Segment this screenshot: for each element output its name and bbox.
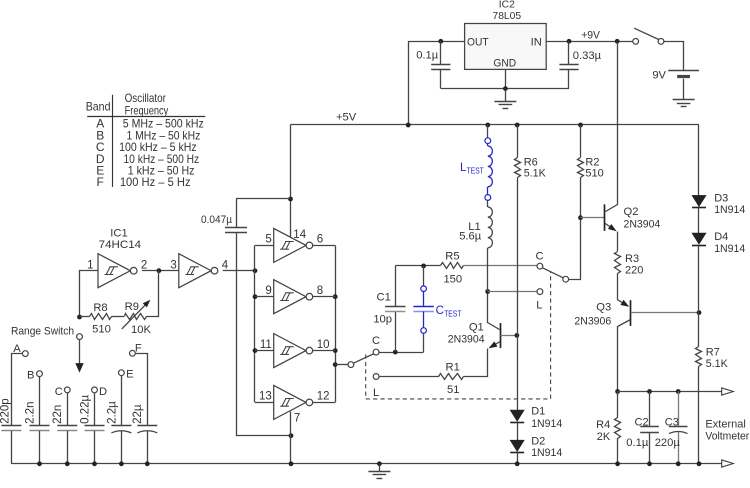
wire: output stub pin 8 (313, 296, 335, 298)
wire: +9V down to Q2 collector (617, 41, 619, 203)
wire: output stub pin 12 (313, 402, 335, 404)
svg-text:C: C (436, 305, 444, 317)
svg-text:2N3906: 2N3906 (574, 316, 611, 328)
svg-text:IC1: IC1 (110, 228, 127, 240)
wire: R5 row (395, 265, 440, 267)
svg-text:78L05: 78L05 (492, 11, 521, 22)
capacitor CTEST (blue) (423, 266, 425, 286)
capacitor 22u (polarized) (137, 425, 157, 427)
wire: IC1B output to buffer bank input bus (223, 270, 255, 272)
wire: E to 2.2u (121, 376, 123, 426)
svg-text:5.6µ: 5.6µ (459, 230, 482, 242)
svg-text:10: 10 (317, 339, 330, 351)
terminal D (92, 387, 98, 393)
pin 7 wire (290, 412, 292, 464)
power switch blade (634, 28, 659, 39)
junction Ctest top (421, 264, 426, 269)
inverter IC1A (pins 1/2) (98, 254, 137, 288)
transistor Q2 2N3904 (581, 217, 605, 219)
resistor R9 (variable) (125, 314, 147, 320)
wire: R6 to Q1 base to D1 (517, 178, 519, 411)
capacitor 2.2n (30, 425, 50, 427)
wire: selector tap to pole (335, 364, 348, 366)
wire: C to 22n (67, 393, 69, 426)
ground below battery (673, 99, 695, 101)
inductor LTEST (blue) (487, 125, 489, 138)
C/L selector left blade (353, 354, 374, 364)
junction C2 top (647, 389, 652, 394)
junction output bus selector tap (333, 362, 338, 367)
svg-text:L: L (373, 387, 379, 399)
wire: input stub pin 11 (255, 350, 274, 352)
inverter IC1 gate (pins 13/12) (274, 385, 313, 419)
junction input bus pin 9 (253, 294, 258, 299)
C/L selector right blade (542, 268, 563, 278)
capacitor 0.33u (568, 41, 570, 64)
wire: R7 to ground rail (698, 366, 700, 463)
wire: D1 to D2 (517, 423, 519, 441)
inductor L1 5.6u (487, 200, 489, 207)
ground below IC2 (505, 89, 507, 102)
svg-text:Band: Band (86, 100, 111, 114)
svg-text:10K: 10K (131, 324, 151, 336)
junction GND (503, 86, 508, 91)
resistor R4 2K (617, 392, 619, 418)
wire: output bus (335, 245, 337, 402)
junction C3 top (676, 389, 681, 394)
IC2 78L05 box (465, 24, 547, 70)
svg-text:D3: D3 (714, 192, 728, 204)
wire: C terminal to C1/Ctest bottom (379, 352, 424, 354)
svg-text:5.1K: 5.1K (524, 168, 547, 180)
svg-text:2N3904: 2N3904 (624, 218, 661, 230)
inverter IC1 gate (pins 5/6) (274, 228, 313, 262)
junction output bus pin 10 (333, 348, 338, 353)
wire: input bus (254, 245, 256, 402)
wire: R2 to Q2 base (580, 178, 582, 218)
wire: R5 to C contact (464, 265, 538, 267)
junction input bus pin 11 (253, 348, 258, 353)
svg-text:R1: R1 (446, 362, 460, 374)
svg-text:3: 3 (170, 260, 176, 272)
terminal L (right) (537, 289, 543, 295)
wire: IC2 OUT to 0.1u and +5V feed (409, 42, 465, 125)
capacitor C1 (395, 312, 397, 353)
wire: input stub pin 5 (255, 245, 274, 247)
wire: D2 to ground rail (517, 453, 519, 464)
junction IN/0.33u (567, 39, 572, 44)
wire: pole to Q2 base node (569, 218, 581, 280)
junction +5V/OUT feed (406, 123, 411, 128)
wire: feedback left segment (80, 316, 90, 318)
wire: R9 to output node (147, 271, 159, 317)
svg-text:Q3: Q3 (596, 302, 611, 314)
svg-text:R8: R8 (93, 302, 107, 314)
svg-text:2N3904: 2N3904 (448, 334, 485, 346)
svg-text:D2: D2 (531, 435, 545, 447)
svg-text:R9: R9 (125, 301, 139, 313)
svg-text:IN: IN (531, 36, 542, 48)
svg-text:Voltmeter: Voltmeter (705, 431, 749, 443)
power switch (on-off) contacts (633, 39, 639, 45)
wire: L terminal to R1 (379, 376, 439, 378)
svg-text:10p: 10p (373, 313, 392, 325)
band table divider lines (112, 95, 114, 187)
svg-text:TEST: TEST (467, 167, 484, 176)
junction rail pin7 (289, 461, 294, 466)
wire: IC1A input (80, 271, 99, 317)
svg-text:Range Switch: Range Switch (11, 325, 74, 337)
wire: IC2 GND pin (505, 69, 507, 88)
terminal C (64, 387, 70, 393)
range switch wiper terminal (77, 334, 83, 340)
diode D3 1N914 (692, 195, 706, 206)
capacitor 2.2u (polarized) (111, 425, 131, 427)
junction Q3 base / reference line (697, 310, 702, 315)
capacitor 0.047u (236, 199, 238, 228)
svg-text:9: 9 (265, 285, 271, 297)
junction OUT/0.1u (438, 39, 443, 44)
svg-text:14: 14 (293, 229, 306, 241)
C/L selector right pole terminal (563, 276, 569, 282)
svg-text:D1: D1 (531, 406, 545, 418)
terminal C (left) (373, 349, 379, 355)
svg-text:74HC14: 74HC14 (99, 239, 141, 251)
svg-text:Q2: Q2 (624, 206, 639, 218)
junction C1 bottom (393, 350, 398, 355)
terminal F (130, 350, 136, 356)
junction input bus (253, 268, 258, 273)
wire: +5V rail to D3 (698, 125, 700, 195)
svg-text:Q1: Q1 (469, 321, 484, 333)
capacitor 220p (1, 425, 21, 427)
wire: F to 22u (136, 354, 148, 426)
svg-text:0.22µ: 0.22µ (79, 395, 91, 424)
diode D1 1N914 (510, 410, 524, 421)
junction +9V tap (615, 39, 620, 44)
svg-text:External: External (705, 419, 746, 431)
terminal A (22, 351, 28, 357)
junction rail C2 (647, 461, 652, 466)
wire: output stub pin 10 (313, 350, 335, 352)
svg-text:2.2µ: 2.2µ (106, 401, 118, 424)
wire: ground rail (11, 463, 721, 465)
svg-text:R3: R3 (625, 253, 639, 265)
svg-text:12: 12 (317, 391, 330, 403)
wire: R1 to Q1 emitter (464, 349, 488, 377)
junction rail C3 (676, 461, 681, 466)
svg-text:OUT: OUT (467, 36, 489, 48)
svg-text:+9V: +9V (581, 30, 600, 42)
wire: input stub pin 9 (255, 296, 274, 298)
resistor R7 5.1K (698, 313, 700, 347)
svg-text:C: C (55, 386, 63, 398)
svg-text:9V: 9V (652, 70, 666, 82)
capacitor 0.1u (440, 41, 442, 64)
junction Q1 collector / L row (485, 289, 490, 294)
junction pin7/0.047u (289, 433, 294, 438)
dashed test fixture box (366, 272, 551, 399)
wire: 0.047u bottom to pin 7 node (236, 435, 291, 437)
inverter IC1B (pins 3/4) (179, 254, 218, 288)
capacitor 0.22u (85, 425, 105, 427)
junction Q2 base node (578, 215, 583, 220)
svg-text:B: B (27, 369, 34, 381)
resistor R6 5.1K (517, 125, 519, 157)
svg-text:5: 5 (265, 234, 271, 246)
svg-text:1: 1 (87, 260, 93, 272)
inverter IC1 gate (pins 11/10) (274, 334, 313, 368)
wire: output stub pin 6 (313, 245, 335, 247)
wire: L row to L contact (488, 291, 537, 293)
wire: switch to battery (664, 42, 684, 71)
svg-text:R7: R7 (706, 347, 720, 359)
junction rail D2 (515, 461, 520, 466)
wire: A to 220p (12, 354, 23, 426)
wire: IC2 IN to +9V (546, 41, 633, 43)
main ground symbol (379, 464, 381, 472)
svg-text:1N914: 1N914 (714, 243, 745, 255)
wire: bypass cap ground bus (441, 88, 569, 90)
wire: IC1A output to IC1B input (142, 270, 179, 272)
capacitor 22n (57, 425, 77, 427)
svg-text:0.1µ: 0.1µ (626, 437, 649, 449)
diode D4 1N914 (692, 233, 706, 244)
svg-text:510: 510 (585, 168, 603, 180)
svg-text:8: 8 (317, 285, 323, 297)
svg-text:220p: 220p (0, 398, 12, 424)
svg-text:D: D (99, 386, 107, 398)
junction +5V/Ltest (485, 123, 490, 128)
wire: +5V rail (291, 124, 700, 126)
svg-text:6: 6 (317, 234, 323, 246)
svg-text:IC2: IC2 (499, 0, 515, 11)
svg-text:11: 11 (260, 339, 272, 351)
capacitor C3 220u (polarized) (678, 392, 680, 427)
terminal E (119, 370, 125, 376)
resistor R8 (90, 314, 112, 320)
svg-text:C: C (535, 251, 543, 263)
svg-text:F: F (135, 342, 142, 354)
wire: R8-R9 link (112, 316, 125, 318)
svg-text:100 Hz – 5 Hz: 100 Hz – 5 Hz (120, 175, 191, 189)
svg-text:Frequency: Frequency (125, 103, 169, 117)
svg-text:0.1µ: 0.1µ (416, 50, 439, 62)
wire: battery to ground (683, 79, 685, 100)
junction +5V/R2 (578, 123, 583, 128)
ground rail arrow (voltmeter -) (722, 460, 734, 467)
wire: B to 2.2n (39, 377, 41, 426)
junction rail R4 (615, 461, 620, 466)
junction 0.047u top (288, 197, 293, 202)
svg-text:L: L (536, 299, 542, 311)
svg-text:+5V: +5V (336, 111, 357, 123)
wire: D3 to D4 (698, 208, 700, 233)
transistor Q1 2N3904 (500, 323, 502, 348)
svg-text:C3: C3 (665, 416, 679, 428)
R9 wiper arrow (122, 304, 147, 329)
terminal C (right) (537, 263, 543, 269)
transistor Q3 2N3906 (617, 274, 619, 300)
battery 9V (668, 70, 699, 72)
terminal L (left) (373, 374, 379, 380)
resistor R2 510 (580, 125, 582, 157)
junction rail cap B (37, 461, 42, 466)
svg-text:220µ: 220µ (655, 437, 681, 449)
junction R8/input/range switch (77, 315, 82, 320)
range switch selector arrow (79, 340, 81, 365)
svg-text:5.1K: 5.1K (706, 358, 729, 370)
svg-text:22n: 22n (52, 405, 64, 424)
output arrow (voltmeter +) (722, 388, 734, 395)
wire: input stub pin 13 (255, 402, 274, 404)
junction Q3 collector / output node (615, 389, 620, 394)
svg-text:R5: R5 (445, 251, 459, 263)
wire: D4 to Q3 base node (698, 246, 700, 313)
svg-text:C: C (372, 335, 380, 347)
wire: D to 0.22u (94, 393, 96, 426)
resistor R1 (439, 374, 464, 380)
diode D2 1N914 (510, 440, 524, 451)
svg-text:1N914: 1N914 (714, 204, 745, 216)
svg-text:F: F (97, 175, 104, 189)
junction +5V/R6 (515, 123, 520, 128)
wire: output node row (618, 391, 722, 393)
junction Q1 base / bias line (515, 333, 520, 338)
svg-text:TEST: TEST (444, 310, 461, 319)
svg-text:0.33µ: 0.33µ (573, 50, 602, 62)
inverter IC1 gate (pins 9/8) (274, 280, 313, 314)
junction rail R7 (697, 461, 702, 466)
resistor R5 (441, 263, 464, 269)
junction feedback/output (157, 268, 162, 273)
svg-text:E: E (126, 369, 133, 381)
svg-text:0.047µ: 0.047µ (201, 214, 232, 226)
svg-text:C1: C1 (376, 291, 390, 303)
terminal B (37, 371, 43, 377)
junction rail cap E (119, 461, 124, 466)
svg-text:R4: R4 (596, 419, 610, 431)
junction output bus pin 8 (333, 294, 338, 299)
svg-text:1N914: 1N914 (531, 447, 562, 459)
C/L selector left pole terminal (348, 362, 354, 368)
svg-text:GND: GND (493, 57, 516, 69)
wire: 0.047u top connection (236, 198, 291, 200)
svg-text:220: 220 (625, 264, 643, 276)
junction rail cap D (92, 461, 97, 466)
svg-text:1N914: 1N914 (531, 418, 562, 430)
svg-text:7: 7 (294, 413, 300, 425)
svg-text:C2: C2 (635, 416, 649, 428)
capacitor C2 0.1u (649, 392, 651, 427)
junction rail ground symbol (377, 461, 382, 466)
svg-text:2K: 2K (597, 431, 611, 443)
wire: +5V down to pin 14 (290, 125, 292, 238)
resistor R3 220 (615, 252, 621, 274)
svg-text:51: 51 (447, 384, 459, 396)
junction rail cap C (65, 461, 70, 466)
svg-text:22µ: 22µ (132, 404, 144, 424)
junction rail cap F (145, 461, 150, 466)
svg-text:13: 13 (259, 391, 272, 403)
svg-text:150: 150 (443, 274, 462, 286)
svg-text:D4: D4 (714, 231, 728, 243)
svg-text:2.2n: 2.2n (24, 402, 36, 424)
svg-text:510: 510 (92, 323, 111, 335)
